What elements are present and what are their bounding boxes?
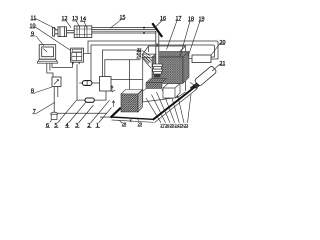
svg-text:14: 14 <box>80 17 86 23</box>
leader 20 <box>211 44 220 55</box>
svg-text:7: 7 <box>33 109 36 115</box>
slab back edge <box>121 76 164 109</box>
slab top front edge <box>111 117 154 119</box>
small pump bottom left <box>51 112 58 119</box>
wire monitor to gauge 2 <box>49 63 51 70</box>
leader 18 <box>180 21 190 56</box>
slab right corner tip <box>190 83 196 87</box>
indenter tip <box>154 74 160 77</box>
leader 28 tick <box>119 120 122 123</box>
leader 16 <box>155 21 162 28</box>
leader 8 <box>35 87 52 93</box>
leader 1 <box>99 107 112 123</box>
specimen block dark hatched <box>152 52 189 84</box>
motor M <box>53 27 75 37</box>
leader 17 <box>167 21 178 50</box>
wire capsule1 to tank <box>92 82 100 84</box>
svg-text:11: 11 <box>31 15 37 21</box>
pump capsule 2 <box>85 98 94 102</box>
svg-text:5: 5 <box>55 123 58 129</box>
svg-text:4: 4 <box>66 123 69 129</box>
slab x mark <box>130 119 132 122</box>
svg-text:15: 15 <box>120 15 126 21</box>
wire controller down to pump2 <box>77 64 85 100</box>
wire monitor to controller <box>52 62 72 67</box>
leader fan g <box>188 95 192 123</box>
svg-text:9: 9 <box>31 31 34 37</box>
leader 3 <box>79 105 94 123</box>
axis arrows at slab corner <box>111 86 115 108</box>
platform slab <box>111 76 198 123</box>
crank handle thick <box>152 23 162 37</box>
wire loop A to rod <box>103 50 142 77</box>
svg-text:16: 16 <box>160 16 166 22</box>
leader fan c <box>157 92 171 123</box>
leader 21 <box>212 65 220 72</box>
shaft junction dots <box>143 27 145 29</box>
svg-text:10: 10 <box>30 23 36 29</box>
slab thick right edge <box>153 86 196 120</box>
slab bottom edge <box>112 120 154 122</box>
svg-text:13: 13 <box>72 16 78 22</box>
leader 29 tick <box>137 118 138 121</box>
leader 12 <box>66 21 71 28</box>
gauge meter box <box>52 77 61 87</box>
leader 9 <box>36 36 44 46</box>
leader 6 <box>50 120 52 122</box>
slab right edge inner line <box>155 89 198 123</box>
cylinder tip <box>194 83 200 89</box>
rotated cylinder 21 <box>194 66 217 87</box>
svg-text:17: 17 <box>176 16 182 22</box>
wire monitor to gauge <box>47 63 53 77</box>
leader fan a <box>146 98 161 123</box>
leader 13 <box>76 21 80 28</box>
leader 23 <box>142 54 151 63</box>
lower hatched support box <box>146 79 167 89</box>
leader 19 <box>188 21 200 56</box>
wire capsule1 left stub <box>79 82 82 84</box>
controller box <box>71 48 84 64</box>
svg-text:8: 8 <box>31 88 34 94</box>
leader 7 <box>37 102 55 113</box>
svg-text:1: 1 <box>96 123 99 129</box>
box20 link <box>189 58 192 60</box>
leader fan b <box>152 95 166 123</box>
leader 24 <box>142 57 152 68</box>
svg-text:6: 6 <box>46 123 49 129</box>
tank rectangle <box>100 77 112 92</box>
drive shaft lines <box>92 28 156 33</box>
svg-text:20: 20 <box>220 40 226 46</box>
wire loop B to rod <box>105 60 141 77</box>
screw rod <box>155 31 159 64</box>
lower white cube <box>163 84 180 99</box>
svg-text:24: 24 <box>137 54 142 59</box>
leader 4 <box>69 101 87 123</box>
loading frame wire box <box>143 46 186 102</box>
computer monitor <box>37 45 57 64</box>
bearing gearbox <box>74 26 92 38</box>
leader 14 <box>84 21 87 28</box>
leader fan f <box>175 84 184 123</box>
wire support column <box>129 60 131 90</box>
wire tank to box horizontal <box>111 79 143 81</box>
wire gauge leg b <box>57 87 59 98</box>
leader fan d <box>162 89 175 123</box>
svg-text:21: 21 <box>220 61 226 67</box>
slab thick left bar <box>111 108 121 118</box>
box20 load cell <box>192 55 211 63</box>
nut ring stack <box>153 64 162 74</box>
svg-text:22: 22 <box>184 123 188 128</box>
svg-text:2: 2 <box>88 123 91 129</box>
wire outer loop frame <box>88 41 218 59</box>
leader 10 <box>35 27 71 51</box>
leader 5 <box>58 100 77 123</box>
pump capsule 1 <box>82 81 92 86</box>
svg-text:19: 19 <box>199 16 205 22</box>
leader 2 <box>91 100 110 123</box>
leader 11 <box>36 19 57 30</box>
hatched box on slab <box>121 90 143 113</box>
svg-text:3: 3 <box>76 123 79 129</box>
svg-text:12: 12 <box>62 16 68 22</box>
leader fan e <box>169 87 180 123</box>
svg-text:18: 18 <box>188 16 194 22</box>
wire inner loop frame <box>91 45 215 81</box>
leader 15 <box>110 20 121 29</box>
wire gauge leg a <box>53 87 55 113</box>
leader 22 <box>142 51 151 57</box>
controller right connector <box>83 53 91 55</box>
wire bottom bus <box>57 112 107 114</box>
wire pump2 to tank <box>94 91 106 100</box>
